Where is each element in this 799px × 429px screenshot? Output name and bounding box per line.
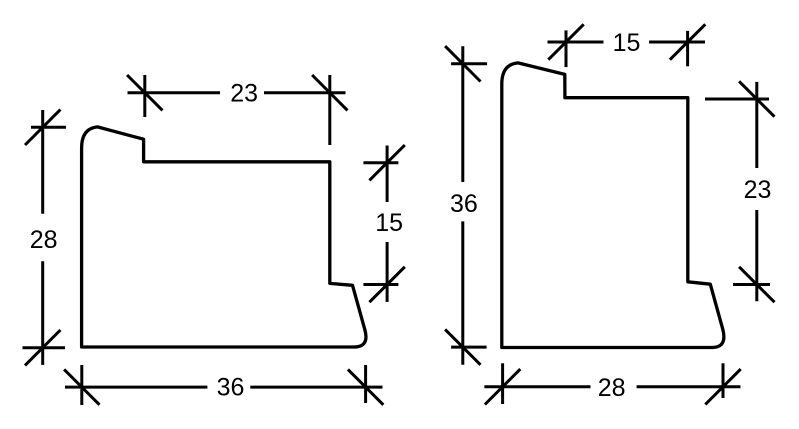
left dim 23: left tick slash [127, 75, 162, 110]
left dim 36: right tick extension [364, 365, 367, 403]
right dim 28: left tick extension [501, 363, 504, 404]
left dim 36: left tick slash [64, 369, 99, 404]
right dim 36: bottom tick extension [451, 346, 487, 349]
right dim 15: left tick slash [548, 24, 583, 59]
svg-text:15: 15 [613, 29, 641, 57]
left dim 23: right tick slash [312, 75, 347, 110]
left dim 28: dimension line [41, 110, 44, 365]
right dim 28: left tick slash [485, 369, 520, 404]
right dim 36: dimension line [461, 46, 464, 365]
left dim 36: dimension line [65, 386, 383, 389]
right dim 23: bottom tick extension [733, 283, 770, 286]
right dim 36: top tick slash [445, 46, 480, 81]
svg-text:28: 28 [30, 226, 58, 254]
right dim 15: right tick extension [686, 31, 689, 66]
right dim 28: right tick slash [705, 369, 740, 404]
left dim 15: top tick slash [369, 145, 404, 180]
right dim 36: bottom tick slash [445, 329, 480, 364]
right dim 15: left tick extension [565, 30, 568, 67]
right dim 15: right tick slash [670, 24, 705, 59]
right dim 23: dimension line [755, 82, 758, 301]
left dim 23: dimension line [128, 91, 346, 94]
svg-text:23: 23 [230, 79, 258, 107]
svg-text:36: 36 [450, 190, 478, 218]
right dim 23: top tick slash [739, 81, 774, 116]
right dim 28: dimension line [484, 385, 740, 388]
left dim 28: top tick extension [31, 126, 66, 129]
left dim 23: right tick extension [328, 75, 331, 145]
svg-text:15: 15 [375, 209, 403, 237]
right dim 23: bottom tick slash [739, 267, 774, 302]
right dim 23: top tick extension [705, 98, 769, 101]
left dim 36: left tick extension [80, 365, 83, 405]
left dim 28: bottom tick slash [25, 330, 60, 365]
svg-text:23: 23 [744, 176, 772, 204]
left dim 15: bottom tick slash [369, 267, 404, 302]
left dim 28: bottom tick extension [23, 346, 66, 349]
right dim 15: dimension line [548, 41, 706, 44]
left dim 36: right tick slash [348, 369, 383, 404]
left dim 15: top tick extension [363, 161, 398, 164]
left dim 15: dimension line [386, 146, 389, 302]
left dim 15: bottom tick extension [363, 283, 398, 286]
right dim 28: right tick extension [722, 363, 725, 398]
right dim 36: top tick extension [451, 62, 487, 65]
left dim 28: top tick slash [25, 110, 60, 145]
svg-text:28: 28 [598, 374, 626, 402]
right moulding profile outline [502, 63, 724, 348]
left dim 23: left tick extension [143, 75, 146, 117]
svg-text:36: 36 [217, 373, 245, 401]
left moulding profile outline [82, 127, 366, 347]
